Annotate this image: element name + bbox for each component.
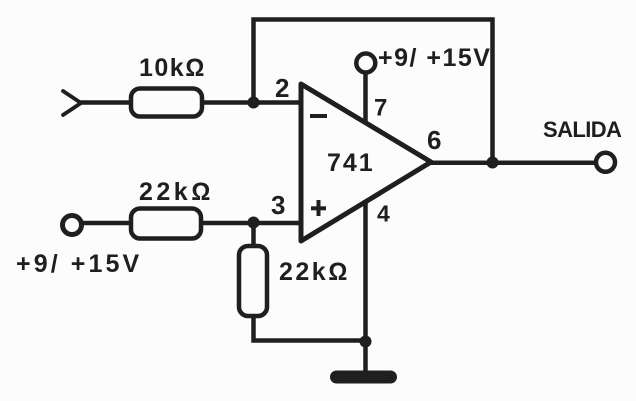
op-amp U1 741 triangle bbox=[301, 84, 431, 241]
node junction ground bbox=[360, 336, 372, 348]
svg-text:741: 741 bbox=[327, 149, 375, 177]
wire ground stub bbox=[363, 341, 368, 372]
ground symbol bar bbox=[330, 371, 397, 384]
input terminal chevron bbox=[63, 91, 81, 115]
wire R1 to node pin2 bbox=[202, 100, 301, 105]
resistor R2 22k body bbox=[131, 209, 201, 239]
svg-text:6: 6 bbox=[427, 125, 441, 155]
minus sign inverting input bbox=[310, 114, 327, 118]
wire feedback loop bbox=[254, 20, 493, 163]
wire pin 4 bbox=[363, 200, 368, 341]
svg-text:22kΩ: 22kΩ bbox=[139, 178, 214, 206]
svg-text:3: 3 bbox=[271, 190, 285, 220]
svg-text:+9/ +15V: +9/ +15V bbox=[16, 250, 142, 278]
wire R3 bottom to ground node bbox=[254, 316, 366, 341]
wire output bbox=[431, 161, 596, 166]
wire node3 to R3 bbox=[251, 223, 256, 248]
resistor R1 10k body bbox=[131, 89, 202, 117]
terminal circle SALIDA bbox=[596, 153, 615, 172]
svg-text:2: 2 bbox=[275, 73, 289, 103]
node junction pin3 bbox=[248, 217, 260, 229]
node junction pin2 bbox=[248, 97, 260, 109]
svg-text:SALIDA: SALIDA bbox=[543, 117, 622, 142]
svg-text:+9/ +15V: +9/ +15V bbox=[378, 44, 491, 72]
svg-text:22kΩ: 22kΩ bbox=[279, 258, 350, 286]
plus sign non-inverting input bbox=[311, 206, 326, 210]
resistor R3 22k body vertical bbox=[239, 246, 267, 316]
terminal circle +9/+15V bottom bbox=[63, 216, 82, 235]
terminal circle +9/+15V top bbox=[356, 54, 375, 73]
wire pin3 input row bbox=[83, 221, 132, 226]
svg-text:10kΩ: 10kΩ bbox=[139, 54, 206, 82]
wire pin 7 supply bbox=[363, 72, 368, 124]
wire input to R1 bbox=[80, 100, 132, 105]
svg-text:4: 4 bbox=[377, 201, 390, 227]
wire R2 to node pin3 bbox=[201, 221, 301, 226]
node junction output bbox=[487, 157, 499, 169]
svg-text:7: 7 bbox=[374, 95, 387, 122]
